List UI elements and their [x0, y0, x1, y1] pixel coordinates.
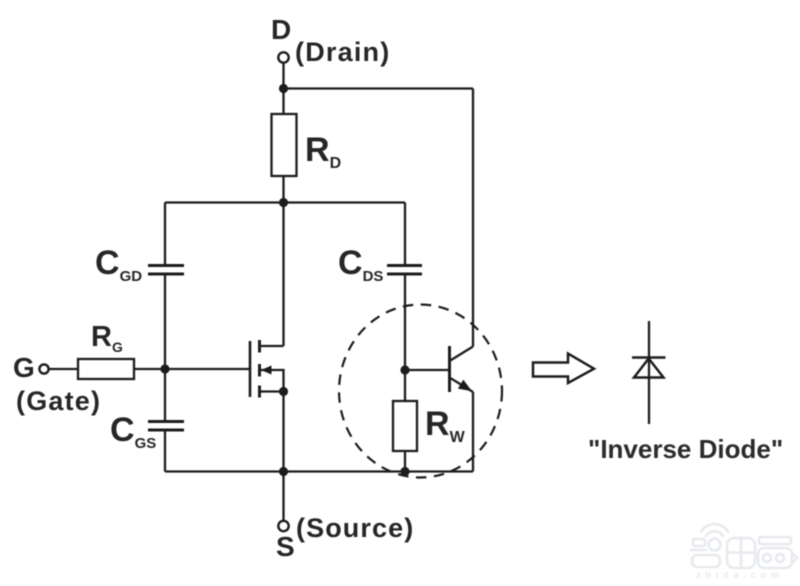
wire: RW bottom to bottom bus [404, 451, 406, 472]
transistor Q1 base bar [448, 346, 451, 392]
svg-text:(Gate): (Gate) [16, 386, 101, 416]
capacitor CGD [148, 266, 184, 275]
block arrow [533, 354, 594, 384]
terminal S circle [278, 521, 288, 531]
transistor Q1 collector diagonal [450, 347, 474, 362]
svg-text:D: D [271, 14, 291, 45]
svg-text:(Source): (Source) [296, 513, 414, 543]
wire: MOSFET body lead [260, 370, 284, 392]
wire: top horizontal from drain node to right branch [284, 87, 474, 89]
node: base junction dot [400, 365, 409, 374]
node: mid junction dot [279, 198, 288, 207]
svg-text:"Inverse Diode": "Inverse Diode" [588, 434, 783, 464]
svg-text:RG: RG [91, 321, 123, 355]
wire: RG to gate node and on to MOSFET gate [134, 368, 250, 370]
wire: emitter vertical to bottom bus [472, 392, 474, 472]
capacitor CDS [387, 266, 422, 275]
capacitor CGS [148, 422, 184, 431]
wire: left vertical upper (to CGD) [164, 203, 166, 266]
node: drain junction dot [279, 84, 288, 93]
transistor M1 channel segments [258, 340, 261, 398]
node: gate junction dot [160, 364, 169, 373]
wire: D terminal down to drain node [282, 63, 284, 115]
wire: center vertical from mid node to MOSFET drain [282, 203, 284, 347]
svg-text:S: S [276, 531, 295, 562]
svg-text:zhida.com: zhida.com [696, 570, 784, 581]
MOSFET body arrow [261, 366, 272, 375]
node: RW bottom junction dot [400, 467, 409, 476]
resistor RW [393, 401, 417, 451]
dashed circle highlight around parasitic BJT [339, 305, 502, 478]
wire: left vertical lower (CGS to bottom bus) [164, 430, 166, 472]
wire: bottom bus to S terminal [282, 472, 284, 522]
svg-text:CGD: CGD [95, 244, 142, 285]
transistor Q1 emitter arrow [458, 380, 472, 392]
transistor Q1 emitter diagonal [450, 378, 474, 393]
wire: mid horizontal bus [165, 201, 405, 203]
terminal G circle [39, 364, 48, 373]
transistor M1 MOSFET gate bar [249, 341, 252, 397]
wire: right vertical (BJT collector feed) [472, 89, 474, 347]
svg-text:RW: RW [425, 405, 466, 446]
svg-text:CDS: CDS [338, 244, 383, 285]
diode D1 vertical lead [648, 321, 650, 424]
wire: RD bottom to mid node [282, 176, 284, 203]
svg-text:RD: RD [305, 131, 341, 172]
wire: right-mid vertical (to CDS) [404, 203, 406, 266]
wire: BJT base wire [405, 369, 449, 371]
diode D1 cathode bar [632, 356, 666, 359]
diode D1 triangle [634, 359, 664, 378]
node: source-body junction dot [279, 387, 288, 396]
terminal D circle [278, 52, 288, 62]
svg-text:(Drain): (Drain) [295, 37, 390, 67]
resistor RG [78, 359, 134, 379]
wire: G terminal to RG [49, 368, 79, 370]
node: source bottom junction dot [279, 467, 288, 476]
wire: MOSFET drain lead [260, 345, 284, 347]
wire: MOSFET source lead down to bottom bus [260, 392, 284, 472]
wire: CDS down to base node and RW [404, 274, 406, 401]
wire: bottom bus [165, 470, 473, 472]
svg-text:G: G [13, 352, 35, 383]
wire: left vertical middle (CGD to gate node) [164, 274, 166, 421]
resistor RD [272, 114, 297, 176]
watermark zhidongxi logo [691, 524, 797, 568]
